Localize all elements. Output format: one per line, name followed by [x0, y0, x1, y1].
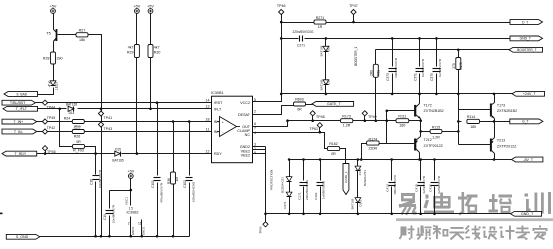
connector S_BAD	[4, 92, 38, 97]
connector T_IN+	[2, 119, 37, 124]
power +5V P1	[50, 4, 57, 13]
wire R27 net vertical	[101, 35, 103, 237]
svg-text:390: 390	[57, 57, 63, 61]
wire C373 col	[392, 39, 394, 67]
junction line2 RF93	[58, 108, 61, 111]
wire basenode to R114	[459, 121, 462, 123]
svg-text:/FLT: /FLT	[214, 107, 222, 111]
resistor R174	[367, 137, 380, 150]
svg-text:14: 14	[206, 99, 210, 103]
wire rail -8V	[290, 159, 512, 161]
junction line5 TP45	[44, 152, 47, 155]
svg-text:+24V_T: +24V_T	[523, 92, 536, 96]
transistor T212	[415, 137, 443, 153]
svg-text:D_T: D_T	[522, 20, 528, 24]
svg-text:GATE_T: GATE_T	[327, 102, 342, 106]
junction vee2 Z171	[357, 213, 360, 216]
wire rail1 right	[327, 22, 511, 24]
wire R29 top	[136, 14, 138, 45]
wire C102 to gnd	[189, 183, 191, 237]
IC internal in wires	[212, 122, 220, 132]
testpoint TP49b	[362, 111, 376, 121]
power +5V P3	[147, 4, 154, 13]
svg-text:C271: C271	[297, 44, 305, 48]
svg-text:S_BAD: S_BAD	[16, 92, 27, 96]
capacitor C371	[413, 58, 425, 81]
svg-text:C18: C18	[89, 179, 93, 185]
junction rail8 C171	[302, 158, 305, 161]
svg-text:C371: C371	[413, 73, 417, 81]
junction rail8 Z171	[357, 158, 360, 161]
testpoint TP49a	[42, 116, 55, 124]
svg-text:180: 180	[470, 125, 476, 129]
svg-text:R162: R162	[329, 142, 338, 146]
svg-text:VEE2: VEE2	[241, 154, 250, 158]
connector GATE_1	[343, 164, 349, 195]
wire LED3 to S_BAD	[38, 88, 54, 95]
svg-text:IN-: IN-	[214, 130, 220, 134]
svg-text:S_GND: S_GND	[16, 235, 29, 239]
wire lineG	[288, 120, 421, 122]
svg-text:R603: R603	[295, 98, 304, 102]
wire line5 RDY right	[122, 153, 212, 155]
IC left pin labels	[214, 101, 223, 156]
junction rail x101	[100, 235, 103, 238]
wire rail 24V	[282, 93, 513, 95]
svg-text:R30: R30	[154, 51, 161, 55]
wire C19 column	[109, 191, 111, 209]
svg-text:4u7/20V/X7R: 4u7/20V/X7R	[422, 175, 426, 194]
resistor R173	[341, 114, 353, 127]
wire rail2 right	[305, 38, 511, 40]
svg-text:BOOSTER_1: BOOSTER_1	[354, 47, 358, 66]
resistor R175	[452, 58, 463, 70]
svg-text:RDY: RDY	[214, 152, 222, 156]
junction rail C101	[156, 235, 159, 238]
junction rail8 C417	[433, 158, 436, 161]
wire VEE2 pin1	[253, 149, 266, 151]
svg-text:ZXTP2012Z: ZXTP2012Z	[497, 144, 517, 148]
wire R31 top	[375, 50, 377, 65]
resistor R162	[327, 142, 339, 156]
svg-text:GND1: GND1	[142, 227, 146, 236]
svg-text:4u7/20V/X7R: 4u7/20V/X7R	[438, 58, 442, 77]
resistor R603	[294, 98, 306, 112]
svg-text:2R0: 2R0	[369, 70, 373, 76]
svg-text:TP48: TP48	[316, 115, 325, 119]
svg-text:GND1: GND1	[131, 227, 135, 236]
junction rail1 TP47	[352, 21, 355, 24]
junction line3 C102	[188, 120, 191, 123]
transistor T213	[491, 138, 518, 154]
svg-text:VCC2: VCC2	[240, 101, 250, 105]
wire C371 col	[419, 39, 421, 67]
junction rail8 C415	[419, 158, 422, 161]
svg-text:+5V: +5V	[50, 4, 57, 8]
wire VCC1 pin	[130, 191, 132, 206]
wire base node vertical	[458, 94, 460, 145]
wire C171 col	[303, 160, 305, 181]
junction vee2 D173	[288, 213, 291, 216]
svg-text:D171: D171	[283, 201, 287, 209]
svg-text:BAT165: BAT165	[350, 198, 354, 209]
wire rail1 left	[282, 22, 315, 24]
svg-text:BOOSTER_T: BOOSTER_T	[517, 48, 536, 52]
wire rail2 left	[282, 38, 299, 40]
junction vee2 C161	[319, 213, 322, 216]
wire C375 col	[436, 39, 438, 67]
wire Z171 col	[357, 160, 359, 167]
svg-text:GND_T: GND_T	[520, 37, 531, 41]
svg-text:16: 16	[138, 222, 142, 226]
junction lineG baseriser	[386, 119, 389, 122]
wire C171 bottom	[303, 187, 305, 214]
wire C417 col	[434, 160, 436, 181]
wire T5 emitter	[53, 42, 55, 53]
svg-text:0R: 0R	[297, 108, 302, 112]
wire VCC1 node	[110, 179, 131, 191]
testpoint TP46	[277, 4, 286, 15]
watermark yiditop training	[396, 192, 553, 240]
svg-text:0R: 0R	[331, 152, 336, 156]
junction vee2 C171	[302, 213, 305, 216]
junction rail24 C375	[435, 93, 438, 96]
svg-text:C413: C413	[386, 184, 390, 192]
connector -8V_T	[512, 157, 543, 162]
junction rail C18	[94, 235, 97, 238]
wire R29 bottom	[136, 58, 138, 154]
svg-text:R174: R174	[369, 137, 378, 141]
svg-text:100n/50V/X7R: 100n/50V/X7R	[394, 57, 398, 78]
wire D171b bottom	[357, 203, 359, 214]
svg-text:T213: T213	[497, 139, 505, 143]
wire C18 to gnd	[95, 182, 97, 237]
svg-text:R_F93: R_F93	[73, 149, 84, 153]
svg-text:C171: C171	[297, 192, 301, 200]
wire booster rail	[376, 49, 510, 51]
svg-text:T172: T172	[424, 104, 432, 108]
svg-text:TP49: TP49	[368, 115, 377, 119]
resistor R26	[72, 130, 84, 139]
wire C19 to gnd	[109, 216, 111, 237]
svg-text:470n/50V/X7R: 470n/50V/X7R	[159, 182, 163, 203]
svg-text:R31: R31	[376, 70, 380, 76]
wire R30 bottom	[150, 58, 152, 109]
svg-text:D14: D14	[69, 111, 75, 115]
junction rail24 C371	[418, 93, 421, 96]
junction riser rail24	[280, 93, 283, 96]
svg-text:1n0/50V/C0G: 1n0/50V/C0G	[322, 180, 326, 199]
op-amp triangle	[220, 117, 241, 137]
resistor R111	[396, 114, 409, 127]
svg-text:2: 2	[254, 110, 256, 114]
resistor R27	[76, 29, 88, 43]
junction R30 line2	[149, 108, 152, 111]
svg-text:IC30B1: IC30B1	[211, 91, 224, 95]
junction lineG R31	[375, 119, 378, 122]
svg-text:R29: R29	[127, 51, 134, 55]
svg-text:T_IN-: T_IN-	[14, 130, 24, 134]
svg-text:R115: R115	[432, 126, 440, 130]
svg-text:G_T: G_T	[522, 120, 528, 124]
svg-text:TP50: TP50	[259, 226, 263, 234]
wire base riser	[386, 111, 388, 144]
svg-text:+: +	[222, 120, 224, 124]
svg-text:TP61: TP61	[309, 127, 318, 131]
wire C161 col	[320, 160, 322, 181]
svg-text:R27: R27	[79, 29, 86, 33]
power +5V P4	[127, 169, 134, 178]
svg-text:220R: 220R	[369, 147, 378, 151]
connector S_GND	[6, 234, 40, 239]
svg-text:R173: R173	[342, 114, 351, 118]
wire R31 bottom	[375, 78, 377, 121]
wire C417 bottom	[434, 187, 436, 214]
svg-text:C415: C415	[415, 184, 419, 192]
testpoint TP50	[259, 222, 269, 234]
wire OUT pin	[253, 121, 288, 127]
svg-text:R111: R111	[398, 114, 406, 118]
connector +24V_T	[512, 91, 545, 96]
diode D171b	[350, 198, 362, 210]
wire line1 RST	[36, 102, 212, 104]
wire T5 base	[58, 34, 77, 36]
wire C101 column	[157, 103, 159, 176]
connector T_RDY	[2, 151, 37, 156]
wire GND1 stub	[141, 220, 143, 237]
svg-text:3: 3	[254, 142, 256, 146]
svg-text:R114: R114	[467, 115, 475, 119]
testpoint TP41	[98, 111, 112, 120]
wire R_F93 to line5	[85, 147, 96, 154]
wire R27 to vertical	[89, 35, 102, 103]
wire R603 to GATE_T	[306, 104, 313, 106]
wire line4 IN- left	[37, 131, 73, 133]
junction vee2 C417	[433, 213, 436, 216]
diode D16	[320, 45, 331, 56]
junction lineG TP48	[311, 119, 314, 122]
svg-text:C417: C417	[428, 184, 432, 192]
svg-text:1,2R: 1,2R	[432, 135, 440, 139]
svg-text:12: 12	[206, 150, 210, 154]
capacitor C18	[89, 169, 102, 188]
wire D172 col	[289, 160, 291, 177]
junction lineG TP49	[364, 119, 367, 122]
wire line3 IN+ left	[37, 121, 73, 123]
label IC30B2 pins	[125, 197, 139, 215]
svg-text:100n/50V/X7R: 100n/50V/X7R	[393, 174, 397, 194]
junction rail8 T213	[493, 158, 496, 161]
wire line4 IN- right	[85, 131, 212, 133]
wire VEE2 drop	[265, 147, 267, 223]
wire T213 collector	[494, 154, 496, 160]
edge tick	[0, 213, 3, 215]
wire C375 col2	[436, 74, 438, 94]
svg-text:4k7: 4k7	[128, 46, 134, 50]
svg-text:D15: D15	[115, 147, 121, 151]
svg-text:NC: NC	[245, 133, 251, 137]
wire out line	[495, 121, 511, 123]
svg-text:VCC1: VCC1	[125, 197, 129, 205]
wire T173 emitter	[494, 119, 496, 122]
wire VCC1 stub gnd	[130, 217, 132, 237]
svg-text:TP46: TP46	[277, 4, 286, 8]
capacitor C415	[415, 175, 427, 194]
wire VCC2 to riser	[253, 15, 282, 102]
wire T173 base	[459, 109, 491, 111]
svg-text:ZXTN2B1B2: ZXTN2B1B2	[424, 109, 444, 113]
junction vee2 rail	[264, 213, 267, 216]
wire D172 mid	[289, 182, 291, 193]
svg-text:R175: R175	[459, 62, 463, 70]
testpoint TP61	[309, 123, 322, 133]
wire R175 bottom	[458, 70, 460, 94]
junction rail24 C373	[391, 93, 394, 96]
wire T172 base feed	[387, 110, 415, 112]
resistor R31	[369, 64, 380, 77]
junction lineG OUT	[286, 119, 289, 122]
svg-text:220n/50V/C0G: 220n/50V/C0G	[305, 179, 309, 200]
svg-text:10n/50V/X7R: 10n/50V/X7R	[98, 169, 102, 188]
resistor R_F93	[73, 140, 85, 152]
connector T/BL/BST	[2, 100, 35, 105]
wire R28 to LED3	[53, 65, 55, 81]
svg-text:4k7: 4k7	[154, 46, 160, 50]
junction rail R36	[172, 235, 175, 238]
junction rail24 T172	[418, 93, 421, 96]
svg-text:+5V: +5V	[127, 169, 134, 173]
junction emitter R115	[419, 130, 422, 133]
LED LED3	[48, 81, 59, 90]
junction line2 x101	[100, 108, 103, 111]
wire R175 top	[458, 50, 460, 58]
resistor R29	[127, 45, 139, 58]
svg-text:180: 180	[399, 124, 405, 128]
junction vee2 C415	[419, 213, 422, 216]
wire FLT to R_F93	[60, 109, 73, 147]
IC pin numbers left	[206, 99, 210, 154]
wire VEE2 pin2	[253, 153, 266, 155]
svg-text:BAT165: BAT165	[320, 79, 324, 90]
svg-text:TP47: TP47	[349, 4, 358, 8]
wire R30 top	[150, 14, 152, 45]
svg-text:C101: C101	[151, 180, 155, 188]
junction out T173	[493, 120, 496, 123]
svg-text:BAT165: BAT165	[320, 45, 324, 56]
svg-text:R36: R36	[167, 178, 171, 184]
wire C102 column	[189, 122, 191, 176]
wire T5 collector	[53, 14, 55, 30]
wire C415 bottom	[420, 187, 422, 214]
power +5V P2	[133, 4, 140, 13]
svg-text:R28: R28	[43, 57, 50, 61]
capacitor C373	[386, 57, 398, 81]
wire C413 col	[391, 160, 393, 181]
connector G_T	[510, 119, 543, 124]
wire emitter node vertical	[420, 121, 422, 137]
junction rail24 D17	[325, 93, 328, 96]
resistor R114	[467, 115, 480, 129]
svg-text:BZG04-C51: BZG04-C51	[280, 177, 284, 193]
capacitor C271	[292, 30, 314, 47]
svg-text:TP41: TP41	[104, 116, 113, 120]
wire D16 D17	[325, 52, 327, 80]
svg-text:D17: D17	[326, 79, 330, 85]
transistor T172	[415, 104, 443, 119]
IC pin numbers right	[254, 98, 256, 155]
svg-text:T5: T5	[46, 32, 50, 36]
wire C371 col2	[419, 74, 421, 94]
svg-text:IC30B2: IC30B2	[127, 210, 139, 214]
testpoint TP47	[349, 4, 358, 23]
junction rail8 D172	[288, 158, 291, 161]
svg-text:T/BL/BST: T/BL/BST	[10, 101, 26, 105]
svg-text:D16: D16	[326, 45, 330, 51]
resistor R36	[167, 172, 179, 184]
svg-text:270: 270	[452, 63, 456, 69]
svg-text:/RST: /RST	[214, 101, 223, 105]
transistor T5	[46, 29, 56, 42]
svg-text:D171: D171	[359, 199, 363, 207]
junction booster R175	[457, 49, 460, 52]
svg-text:T173: T173	[497, 103, 505, 107]
testpoint TP43	[98, 122, 112, 131]
capacitor C171	[297, 179, 309, 200]
connector BOOSTER_T	[509, 47, 543, 52]
junction line5 RF93	[94, 152, 97, 155]
junction rail C19	[108, 235, 111, 238]
diode D15	[112, 147, 124, 162]
junction rail8 C161	[319, 158, 322, 161]
junction rail VCC1	[130, 235, 133, 238]
net label BOOSTER_1	[354, 47, 358, 66]
testpoint TP45	[42, 146, 55, 154]
svg-text:Z171: Z171	[358, 168, 362, 175]
svg-text:7: 7	[254, 127, 256, 131]
label GND1 pins	[128, 222, 146, 236]
svg-text:GATE_1: GATE_1	[344, 171, 348, 183]
wire D16 col top	[325, 39, 327, 47]
svg-text:T212: T212	[424, 138, 432, 142]
connector GND_T bottom	[511, 211, 542, 216]
wire T213 base	[459, 144, 491, 146]
svg-text:18: 18	[206, 117, 210, 121]
wire C413 bottom	[391, 187, 393, 214]
wire DESAT	[253, 106, 294, 115]
wire Z171 mid	[357, 171, 359, 198]
junction basenode R114	[457, 120, 460, 123]
wire line2 FLT left	[38, 108, 67, 110]
connector GATE_T	[312, 102, 354, 107]
IC right pin labels	[237, 101, 250, 157]
wire D173 bottom	[289, 197, 291, 214]
junction clamp TP61	[319, 131, 322, 134]
wire GND2 pin	[253, 146, 266, 148]
wire CLAMP	[253, 133, 328, 149]
wire line2 FLT right	[78, 108, 212, 110]
resistor R24	[64, 117, 85, 124]
resistor R25 value block	[73, 125, 81, 132]
svg-text:2: 2	[128, 222, 130, 226]
junction riser rail1	[280, 21, 283, 24]
wire T212 collector	[419, 153, 421, 160]
wire R174 to rail8	[362, 144, 367, 160]
junction rail8 C413	[390, 158, 393, 161]
diode D172	[280, 177, 292, 193]
junction rail2 C373	[391, 37, 394, 40]
svg-text:TP45: TP45	[47, 150, 56, 154]
svg-text:BZG04-C51: BZG04-C51	[363, 170, 367, 186]
